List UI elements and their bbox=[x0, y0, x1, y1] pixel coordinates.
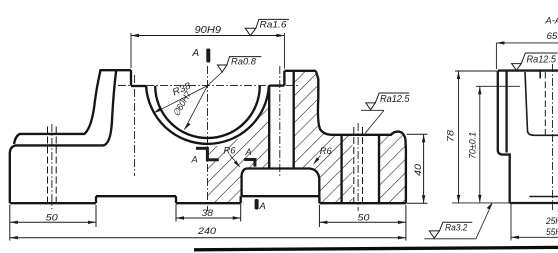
dimension 50 left bbox=[10, 205, 96, 241]
svg-text:Ra0.8: Ra0.8 bbox=[231, 57, 257, 67]
dimension 38 bbox=[176, 204, 241, 222]
svg-text:A: A bbox=[191, 155, 198, 165]
pocket right wall and fillet bbox=[310, 169, 320, 197]
section plane jog marks (thick) bbox=[196, 147, 208, 150]
leader dia60H7 bbox=[184, 86, 207, 130]
roughness Ra12.5 on A-A top bbox=[512, 53, 558, 70]
hatch right foot outer part bbox=[379, 132, 406, 204]
slot right wall bbox=[283, 71, 285, 86]
stud hole left wall bbox=[268, 86, 270, 169]
bore horizontal centerline bbox=[118, 85, 298, 87]
right pad top line bbox=[331, 132, 406, 150]
dimension 50 right bbox=[319, 205, 406, 227]
left foot bottom bbox=[10, 202, 96, 204]
roughness Ra12.5 with leader over right arm bbox=[361, 93, 409, 134]
left pad hole hidden lines bbox=[47, 127, 49, 204]
svg-text:A: A bbox=[245, 147, 252, 157]
right ledge bbox=[269, 84, 284, 86]
svg-text:Ra3.2: Ra3.2 bbox=[445, 223, 468, 233]
svg-text:38: 38 bbox=[202, 208, 214, 218]
pocket top surface bbox=[246, 167, 310, 169]
A-A hidden bore line bbox=[544, 72, 546, 135]
base recess bottom line left bbox=[96, 195, 176, 197]
A-A inner stub edge bbox=[539, 71, 541, 79]
A-A boss slope bbox=[525, 72, 534, 135]
centre block bottom bbox=[176, 202, 241, 204]
hatch section right of bore centerline (bottom centre block and web) bbox=[208, 86, 270, 203]
right foot slot right edge bbox=[378, 135, 380, 203]
pocket floor line bbox=[242, 195, 320, 197]
right outer slope with chamfer bbox=[316, 71, 331, 135]
svg-text:R6: R6 bbox=[320, 146, 333, 156]
right foot bottom bbox=[319, 202, 406, 204]
svg-text:Ra1.6: Ra1.6 bbox=[260, 20, 288, 30]
left ledge bbox=[131, 85, 146, 87]
svg-text:90H9: 90H9 bbox=[195, 25, 222, 36]
section arrow A top bbox=[206, 49, 210, 63]
leader R6 left bbox=[230, 155, 240, 167]
left arm outer contour: face, outer slope, pad top, left corner bbox=[14, 70, 131, 144]
section arrow A bottom bbox=[255, 199, 259, 210]
svg-text:Ra12.5: Ra12.5 bbox=[527, 55, 557, 66]
svg-text:55H9: 55H9 bbox=[546, 227, 558, 237]
stud hole right wall bbox=[293, 71, 295, 169]
dimension 240 bbox=[10, 205, 406, 241]
right pad hole centerline bbox=[357, 123, 359, 211]
right shoulder face bbox=[284, 70, 315, 72]
slot left wall bbox=[130, 70, 132, 86]
outer arc R38 bbox=[146, 86, 269, 144]
A-A top face bbox=[498, 69, 558, 71]
dimension 40 right side bbox=[407, 134, 428, 203]
bottom ext line bbox=[452, 202, 510, 204]
svg-text:A: A bbox=[259, 201, 266, 211]
A-A left edge bbox=[498, 71, 510, 203]
dimension 78 ext bbox=[455, 70, 497, 72]
svg-text:70±0.1: 70±0.1 bbox=[468, 132, 478, 159]
right pad hole hidden lines bbox=[353, 127, 355, 203]
svg-text:R6: R6 bbox=[224, 146, 237, 156]
main vertical centerline bbox=[207, 66, 209, 211]
dimension 55 bottom right bbox=[511, 236, 558, 238]
left arm lower contour line and left edge bbox=[10, 70, 116, 203]
centre block right edge bbox=[240, 196, 242, 203]
A-A base top line bbox=[534, 134, 558, 136]
A-A centerline bbox=[552, 64, 554, 210]
hatch section right boss column and right arm bbox=[294, 71, 353, 203]
left pad hole centerline bbox=[51, 124, 53, 209]
svg-text:50: 50 bbox=[358, 212, 371, 222]
A-A bottom edge bbox=[510, 202, 558, 204]
svg-text:240: 240 bbox=[197, 226, 217, 236]
svg-text:A: A bbox=[192, 48, 200, 59]
svg-text:Ra12.5: Ra12.5 bbox=[380, 94, 410, 105]
left stud hole centerline bbox=[134, 75, 136, 176]
right stud hole centerline bbox=[279, 66, 281, 176]
svg-text:50: 50 bbox=[46, 212, 59, 222]
dimension 65f9 bbox=[496, 42, 558, 44]
inner arc dia60H7 bbox=[155, 86, 260, 138]
roughness Ra0.8 with leader to bore bbox=[207, 57, 262, 87]
pocket left wall and fillet bbox=[242, 169, 246, 197]
svg-text:A-A: A-A bbox=[545, 16, 558, 26]
svg-text:65f9: 65f9 bbox=[547, 31, 558, 41]
left foot step bbox=[95, 196, 97, 203]
leader R38 bbox=[153, 86, 207, 114]
roughness Ra1.6 on 90H9 line bbox=[245, 19, 289, 35]
svg-text:78: 78 bbox=[446, 129, 456, 142]
svg-text:25H7: 25H7 bbox=[545, 216, 558, 226]
dimension 70+-0.1 ext bbox=[476, 85, 520, 87]
right recess step bbox=[318, 196, 320, 203]
centre block left step bbox=[175, 196, 177, 203]
right foot slot left edge bbox=[340, 135, 342, 203]
roughness Ra3.2 with leader to A-A bottom bbox=[424, 204, 492, 239]
A-A base recess floor line bbox=[529, 196, 558, 198]
leader R6 right bbox=[314, 156, 321, 164]
drawing frame bottom bar bbox=[194, 247, 558, 249]
A-A inner left wall bbox=[505, 71, 507, 153]
dimension 90H9 bbox=[130, 33, 132, 68]
right edge bbox=[405, 150, 407, 203]
svg-text:40: 40 bbox=[413, 163, 423, 176]
